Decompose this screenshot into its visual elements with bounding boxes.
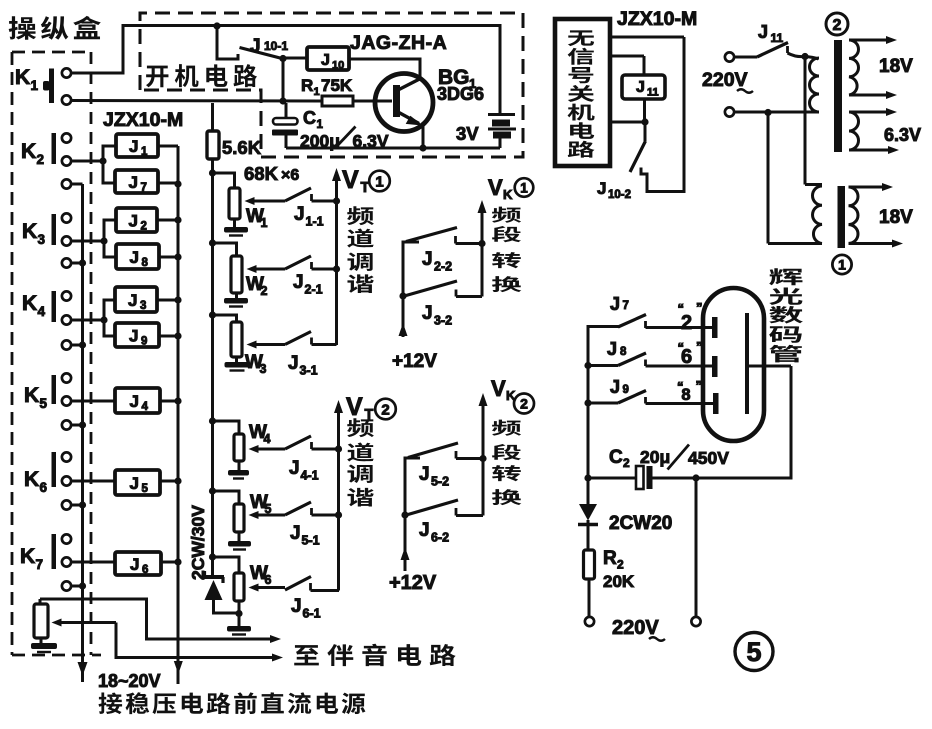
svg-text:J: J: [607, 339, 617, 359]
svg-text:R: R: [301, 76, 313, 95]
svg-text:220V: 220V: [612, 617, 659, 639]
svg-text:6-2: 6-2: [431, 531, 449, 545]
svg-text:7: 7: [36, 557, 44, 572]
svg-text:2-2: 2-2: [434, 260, 452, 274]
svg-text:9: 9: [623, 384, 629, 396]
svg-text:10-2: 10-2: [608, 189, 631, 201]
svg-text:5-2: 5-2: [431, 475, 449, 489]
svg-text:11: 11: [647, 87, 659, 99]
svg-text:6-1: 6-1: [303, 607, 321, 621]
svg-text:11: 11: [771, 31, 784, 45]
svg-text:2: 2: [833, 17, 842, 34]
svg-text:J: J: [419, 464, 430, 485]
svg-text:2: 2: [261, 284, 268, 298]
svg-text:7: 7: [141, 182, 147, 194]
svg-text:×6: ×6: [281, 167, 299, 184]
svg-text:”: ”: [696, 339, 703, 354]
svg-text:”: ”: [696, 378, 703, 393]
svg-text:J: J: [294, 204, 305, 225]
svg-text:JZX10-M: JZX10-M: [617, 8, 697, 30]
svg-text:J: J: [422, 249, 433, 270]
svg-text:3-2: 3-2: [434, 314, 452, 328]
svg-text:J: J: [129, 327, 138, 346]
svg-text:C: C: [609, 447, 623, 468]
svg-text:2: 2: [520, 396, 528, 412]
svg-text:J: J: [288, 353, 299, 374]
svg-text:5: 5: [142, 483, 149, 495]
svg-text:450V: 450V: [688, 448, 729, 468]
svg-text:68K: 68K: [244, 163, 279, 184]
svg-text:J: J: [130, 555, 139, 574]
svg-text:J: J: [610, 377, 620, 397]
svg-text:2: 2: [381, 401, 389, 418]
svg-text:K: K: [24, 468, 39, 491]
svg-text:1: 1: [141, 146, 148, 158]
svg-text:J: J: [129, 173, 138, 192]
svg-text:J: J: [129, 137, 138, 156]
svg-text:7: 7: [623, 300, 629, 312]
svg-text:6: 6: [142, 564, 148, 576]
svg-text:“: “: [678, 340, 685, 355]
svg-text:K: K: [21, 140, 36, 163]
svg-text:3V: 3V: [456, 123, 479, 144]
svg-text:9: 9: [141, 336, 147, 348]
svg-text:J: J: [250, 36, 261, 57]
svg-text:8: 8: [620, 346, 627, 358]
svg-text:J: J: [130, 392, 139, 411]
svg-text:2: 2: [37, 152, 45, 167]
svg-text:3: 3: [38, 232, 46, 247]
svg-text:10: 10: [332, 60, 344, 72]
svg-text:J: J: [422, 303, 433, 324]
svg-text:20K: 20K: [603, 572, 635, 591]
svg-text:5.6K: 5.6K: [222, 137, 262, 158]
svg-text:220V: 220V: [702, 69, 748, 91]
svg-text:K: K: [15, 66, 30, 89]
svg-text:J: J: [636, 79, 645, 96]
svg-text:3-1: 3-1: [300, 364, 318, 378]
svg-text:V: V: [342, 166, 359, 194]
svg-text:2: 2: [141, 221, 147, 233]
svg-text:75K: 75K: [321, 76, 353, 95]
svg-text:6: 6: [265, 573, 272, 587]
svg-text:+12V: +12V: [389, 572, 437, 594]
svg-text:20μ: 20μ: [640, 447, 670, 467]
svg-text:2CW/30V: 2CW/30V: [188, 505, 208, 580]
svg-text:1: 1: [520, 180, 528, 195]
svg-text:5: 5: [40, 396, 48, 411]
svg-text:1: 1: [317, 119, 324, 131]
svg-text:K: K: [503, 187, 513, 202]
svg-text:8: 8: [142, 257, 149, 269]
svg-text:J: J: [290, 523, 301, 544]
svg-text:2: 2: [617, 558, 624, 572]
svg-text:1: 1: [314, 86, 320, 98]
svg-text:K: K: [22, 220, 37, 243]
svg-text:4: 4: [264, 432, 271, 446]
svg-text:V: V: [488, 175, 503, 200]
svg-text:C: C: [303, 108, 316, 128]
svg-text:18V: 18V: [879, 56, 913, 77]
svg-text:“: “: [677, 379, 684, 394]
svg-text:J: J: [289, 458, 300, 479]
svg-text:2CW20: 2CW20: [609, 513, 672, 534]
svg-text:1-1: 1-1: [306, 215, 324, 229]
svg-text:K: K: [20, 545, 35, 568]
svg-text:J: J: [129, 212, 138, 231]
svg-text:K: K: [24, 384, 39, 407]
svg-text:2-1: 2-1: [305, 283, 323, 297]
svg-text:5: 5: [746, 637, 761, 667]
svg-text:1: 1: [261, 216, 268, 230]
svg-text:18~20V: 18~20V: [98, 671, 161, 691]
svg-text:5: 5: [265, 502, 272, 516]
svg-text:1: 1: [838, 257, 846, 273]
svg-text:3: 3: [260, 362, 267, 376]
svg-text:”: ”: [696, 300, 703, 315]
svg-text:3DG6: 3DG6: [437, 84, 484, 104]
svg-text:V: V: [346, 393, 363, 421]
svg-text:3: 3: [140, 300, 146, 312]
svg-text:2: 2: [623, 456, 630, 470]
svg-text:JZX10-M: JZX10-M: [103, 109, 183, 131]
svg-text:J: J: [293, 272, 304, 293]
svg-text:J: J: [419, 520, 430, 541]
svg-text:J: J: [130, 248, 139, 267]
svg-text:JAG-ZH-A: JAG-ZH-A: [350, 32, 447, 54]
svg-text:V: V: [491, 376, 506, 401]
svg-text:1: 1: [375, 173, 383, 190]
svg-text:6.3V: 6.3V: [884, 125, 921, 145]
svg-text:R: R: [603, 548, 617, 569]
svg-text:6: 6: [40, 480, 48, 495]
svg-text:K: K: [22, 292, 37, 315]
svg-text:4: 4: [38, 304, 46, 319]
svg-text:J: J: [321, 52, 330, 69]
svg-text:J: J: [130, 474, 139, 493]
svg-text:J: J: [128, 291, 137, 310]
svg-text:4-1: 4-1: [301, 469, 319, 483]
svg-text:J: J: [597, 179, 606, 198]
svg-text:4: 4: [142, 401, 149, 413]
svg-text:J: J: [758, 22, 768, 42]
svg-text:1: 1: [31, 78, 39, 93]
svg-text:J: J: [291, 596, 302, 617]
svg-text:18V: 18V: [879, 207, 913, 228]
svg-text:J: J: [610, 294, 620, 314]
svg-text:5-1: 5-1: [302, 534, 320, 548]
svg-text:“: “: [678, 301, 685, 316]
svg-text:10-1: 10-1: [264, 39, 288, 53]
svg-text:+12V: +12V: [392, 351, 437, 372]
